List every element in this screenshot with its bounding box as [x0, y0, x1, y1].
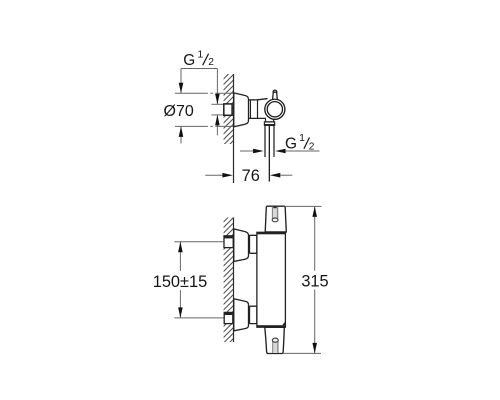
dash-dot extension lines Ø70 — [175, 93, 234, 126]
bottom escutcheon (front view) — [234, 299, 249, 331]
arrowheads top-view vertical dims — [179, 83, 220, 137]
svg-text:G: G — [183, 52, 195, 69]
top inlet square union (front view) — [224, 236, 233, 248]
dimension 150±15 — [153, 242, 208, 318]
wall hatching (side view) — [224, 74, 234, 144]
dimension 315 — [283, 206, 328, 353]
svg-text:1: 1 — [299, 132, 305, 144]
label G1/2 top — [183, 49, 214, 69]
handle circle (side view) — [265, 99, 285, 119]
svg-text:2: 2 — [208, 57, 214, 68]
svg-text:Ø70: Ø70 — [164, 103, 194, 120]
svg-text:150±15: 150±15 — [153, 273, 208, 291]
outlet nut (side view) — [264, 122, 274, 125]
dimension G1/2 bottom (pipe thread) — [240, 149, 320, 154]
outlet neck below handle (side view) — [266, 119, 274, 122]
wall hatching (front view) — [224, 218, 234, 343]
dimension 76 — [205, 167, 292, 185]
extension lines of nipple thread — [212, 104, 224, 115]
safestop mark on body edge — [282, 321, 285, 325]
leader lines G1/2 top and Ø70 — [181, 69, 217, 144]
wall face line (front view) — [233, 218, 235, 343]
wall face line (side view) — [233, 74, 235, 183]
top pin on handle (side view) — [273, 90, 278, 100]
bottom inlet square union (front view) — [224, 312, 233, 323]
mixer body (front view) — [257, 232, 286, 327]
top knob slot — [272, 207, 278, 222]
extension lines 150±15 — [174, 242, 224, 318]
wall union nipple G1/2 (side view) — [224, 104, 232, 115]
svg-text:G: G — [285, 135, 297, 152]
escutcheon flange (side view) — [234, 93, 249, 127]
svg-text:315: 315 — [301, 272, 328, 290]
svg-text:76: 76 — [242, 167, 260, 185]
svg-text:2: 2 — [309, 141, 315, 152]
label G1/2 bottom — [285, 132, 315, 152]
top union nut (front view) — [250, 235, 257, 253]
valve body (side view) — [248, 99, 270, 119]
label Ø70 — [164, 103, 194, 120]
top escutcheon (front view) — [234, 229, 249, 262]
bottom knob slot — [272, 338, 278, 353]
svg-text:1: 1 — [197, 49, 203, 61]
bottom union nut (front view) — [250, 306, 257, 323]
outlet pipe G1/2 (side view) — [265, 126, 274, 182]
top knob / shower outlet (front view) — [265, 206, 286, 232]
bottom knob / temperature handle (front view) — [265, 327, 285, 353]
